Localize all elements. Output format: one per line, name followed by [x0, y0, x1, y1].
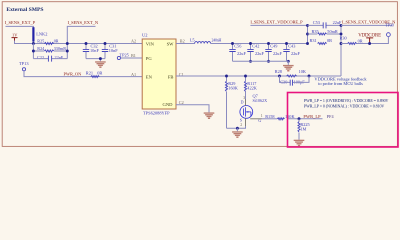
node junctions R24 row [32, 50, 35, 53]
svg-text:R35: R35 [312, 29, 319, 34]
svg-text:240nH: 240nH [212, 39, 222, 43]
svg-text:Si1062X: Si1062X [253, 98, 268, 103]
wire R30 row [341, 43, 348, 45]
svg-text:22uF: 22uF [273, 51, 282, 56]
wire caps bottom rail [233, 60, 289, 62]
svg-text:PWR_LP = 0 (NOMINAL) : VDDCORE: PWR_LP = 0 (NOMINAL) : VDDCORE = 0.810V [304, 103, 385, 108]
svg-text:50mR: 50mR [327, 29, 338, 34]
wire cap bottom rail [86, 58, 105, 60]
svg-text:C22: C22 [37, 55, 44, 60]
svg-text:S: S [240, 117, 242, 122]
wire inductor to sense block [211, 43, 308, 45]
svg-text:0R: 0R [358, 38, 363, 43]
sheet border frame [2, 2, 397, 147]
svg-text:330mR: 330mR [54, 46, 67, 51]
wire sense right rail down to FB [340, 25, 342, 76]
svg-text:A2: A2 [131, 39, 136, 44]
svg-text:C56: C56 [234, 44, 242, 49]
wire main input [33, 43, 142, 45]
svg-text:C53: C53 [313, 20, 320, 25]
node junction left [32, 42, 35, 45]
svg-text:0R: 0R [54, 39, 59, 44]
svg-text:TP30: TP30 [385, 23, 394, 28]
svg-text:TPS62088YFP: TPS62088YFP [143, 110, 170, 115]
wire VDDCORE_N stub [341, 24, 392, 26]
svg-text:22uF: 22uF [255, 51, 264, 56]
svg-text:10K: 10K [299, 69, 307, 74]
svg-text:C42: C42 [252, 44, 259, 49]
svg-text:3: 3 [243, 96, 245, 100]
svg-text:C49: C49 [270, 44, 277, 49]
svg-text:22uF: 22uF [291, 51, 300, 56]
pink callout box [288, 93, 399, 148]
wire FB row [176, 75, 341, 77]
svg-text:A1: A1 [131, 72, 136, 77]
svg-text:I_SENS_EXT_N: I_SENS_EXT_N [68, 20, 99, 25]
svg-text:TP25: TP25 [120, 52, 129, 57]
svg-text:SW: SW [167, 41, 175, 46]
svg-text:1V: 1V [12, 33, 18, 38]
wire PWR_ON row [24, 71, 142, 77]
svg-text:1: 1 [261, 114, 263, 118]
wire Q7 gate [262, 118, 278, 120]
svg-text:C43: C43 [288, 44, 295, 49]
svg-text:EN: EN [146, 74, 153, 79]
svg-text:10nF: 10nF [109, 48, 118, 53]
svg-text:TP13: TP13 [19, 61, 29, 66]
svg-text:R24: R24 [37, 46, 45, 51]
svg-text:22nF: 22nF [55, 55, 64, 60]
wire I_SENS_EXT_N stub [67, 26, 95, 58]
ground under chip GND [204, 112, 215, 119]
ground under caps [287, 61, 289, 65]
svg-text:160K: 160K [228, 86, 238, 91]
svg-text:2: 2 [240, 123, 242, 127]
wire left rail down [32, 44, 34, 59]
svg-text:FB: FB [168, 74, 174, 79]
svg-text:to probe from MCU balls: to probe from MCU balls [318, 81, 363, 86]
ground under Q7 source [236, 128, 238, 131]
svg-text:B2: B2 [180, 39, 185, 44]
svg-text:LNK2: LNK2 [36, 32, 47, 37]
svg-text:I_SENS_EXT_VDDCORE_P: I_SENS_EXT_VDDCORE_P [250, 20, 303, 25]
svg-text:422K: 422K [247, 86, 257, 91]
wire VDDCORE_P stub [250, 24, 307, 26]
ground under R225 [294, 140, 305, 147]
svg-text:R21: R21 [86, 70, 93, 75]
wire TP30 to VDDCORE node [357, 37, 389, 44]
svg-text:R31: R31 [310, 38, 317, 43]
svg-text:I_SENS_EXT_P: I_SENS_EXT_P [5, 20, 36, 25]
svg-text:External SMPS: External SMPS [6, 7, 43, 13]
svg-text:B1: B1 [131, 53, 136, 58]
svg-text:L5: L5 [190, 38, 195, 43]
svg-text:10nF: 10nF [90, 48, 99, 53]
svg-text:R158: R158 [265, 114, 274, 119]
wire R24 row [33, 50, 67, 52]
wire TP25 to PG [121, 57, 142, 59]
wire Q7 source to rail [227, 126, 246, 128]
ground under C32/C31 [99, 59, 101, 62]
svg-text:PWR_LP = 1 (OVERDRIVE) : VDDCO: PWR_LP = 1 (OVERDRIVE) : VDDCORE = 0.890… [304, 98, 389, 103]
svg-text:0R: 0R [97, 70, 102, 75]
svg-text:VIN: VIN [146, 41, 155, 46]
wire gate to PWR_LP [287, 118, 322, 120]
svg-text:PG: PG [146, 56, 153, 61]
svg-text:0R: 0R [327, 38, 332, 43]
link LNK2 [32, 27, 34, 41]
svg-text:R28: R28 [275, 69, 282, 74]
svg-text:1M: 1M [300, 127, 306, 132]
wire sense left rail [307, 25, 309, 43]
svg-text:U2: U2 [142, 32, 148, 37]
svg-text:R30: R30 [340, 35, 347, 40]
wire chip GND to ground [176, 105, 209, 113]
svg-text:PWR_LP: PWR_LP [303, 114, 321, 119]
transistor pins [246, 99, 263, 126]
svg-text:R25: R25 [37, 39, 44, 44]
svg-text:PF4: PF4 [327, 114, 335, 119]
svg-text:22uF: 22uF [237, 51, 246, 56]
wire I_SENS_EXT_P stub [6, 26, 34, 43]
svg-text:C2: C2 [179, 100, 184, 105]
svg-text:PWR_ON: PWR_ON [64, 72, 82, 77]
wire SW to inductor [176, 43, 195, 45]
svg-text:150K: 150K [285, 114, 295, 119]
svg-text:GND: GND [163, 102, 174, 107]
wire 1V to node [15, 41, 34, 44]
